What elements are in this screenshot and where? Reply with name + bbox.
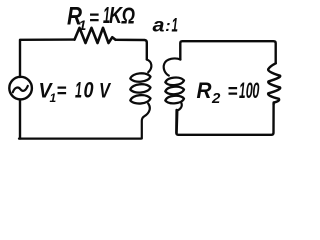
- svg-text:1: 1: [239, 78, 246, 103]
- svg-text:R: R: [197, 78, 212, 103]
- svg-text::: :: [165, 18, 170, 35]
- svg-text:2: 2: [211, 90, 221, 107]
- svg-text:1: 1: [172, 16, 179, 37]
- svg-text:=: =: [89, 8, 99, 30]
- svg-text:V: V: [99, 80, 112, 103]
- svg-text:0: 0: [252, 78, 259, 103]
- svg-text:1: 1: [50, 91, 57, 105]
- svg-text:a: a: [153, 16, 165, 37]
- svg-text:=: =: [228, 81, 238, 103]
- svg-text:1: 1: [75, 78, 82, 103]
- svg-text:=: =: [57, 81, 67, 103]
- svg-text:0: 0: [84, 78, 95, 103]
- svg-text:1: 1: [79, 17, 87, 33]
- svg-text:Ω: Ω: [121, 3, 135, 29]
